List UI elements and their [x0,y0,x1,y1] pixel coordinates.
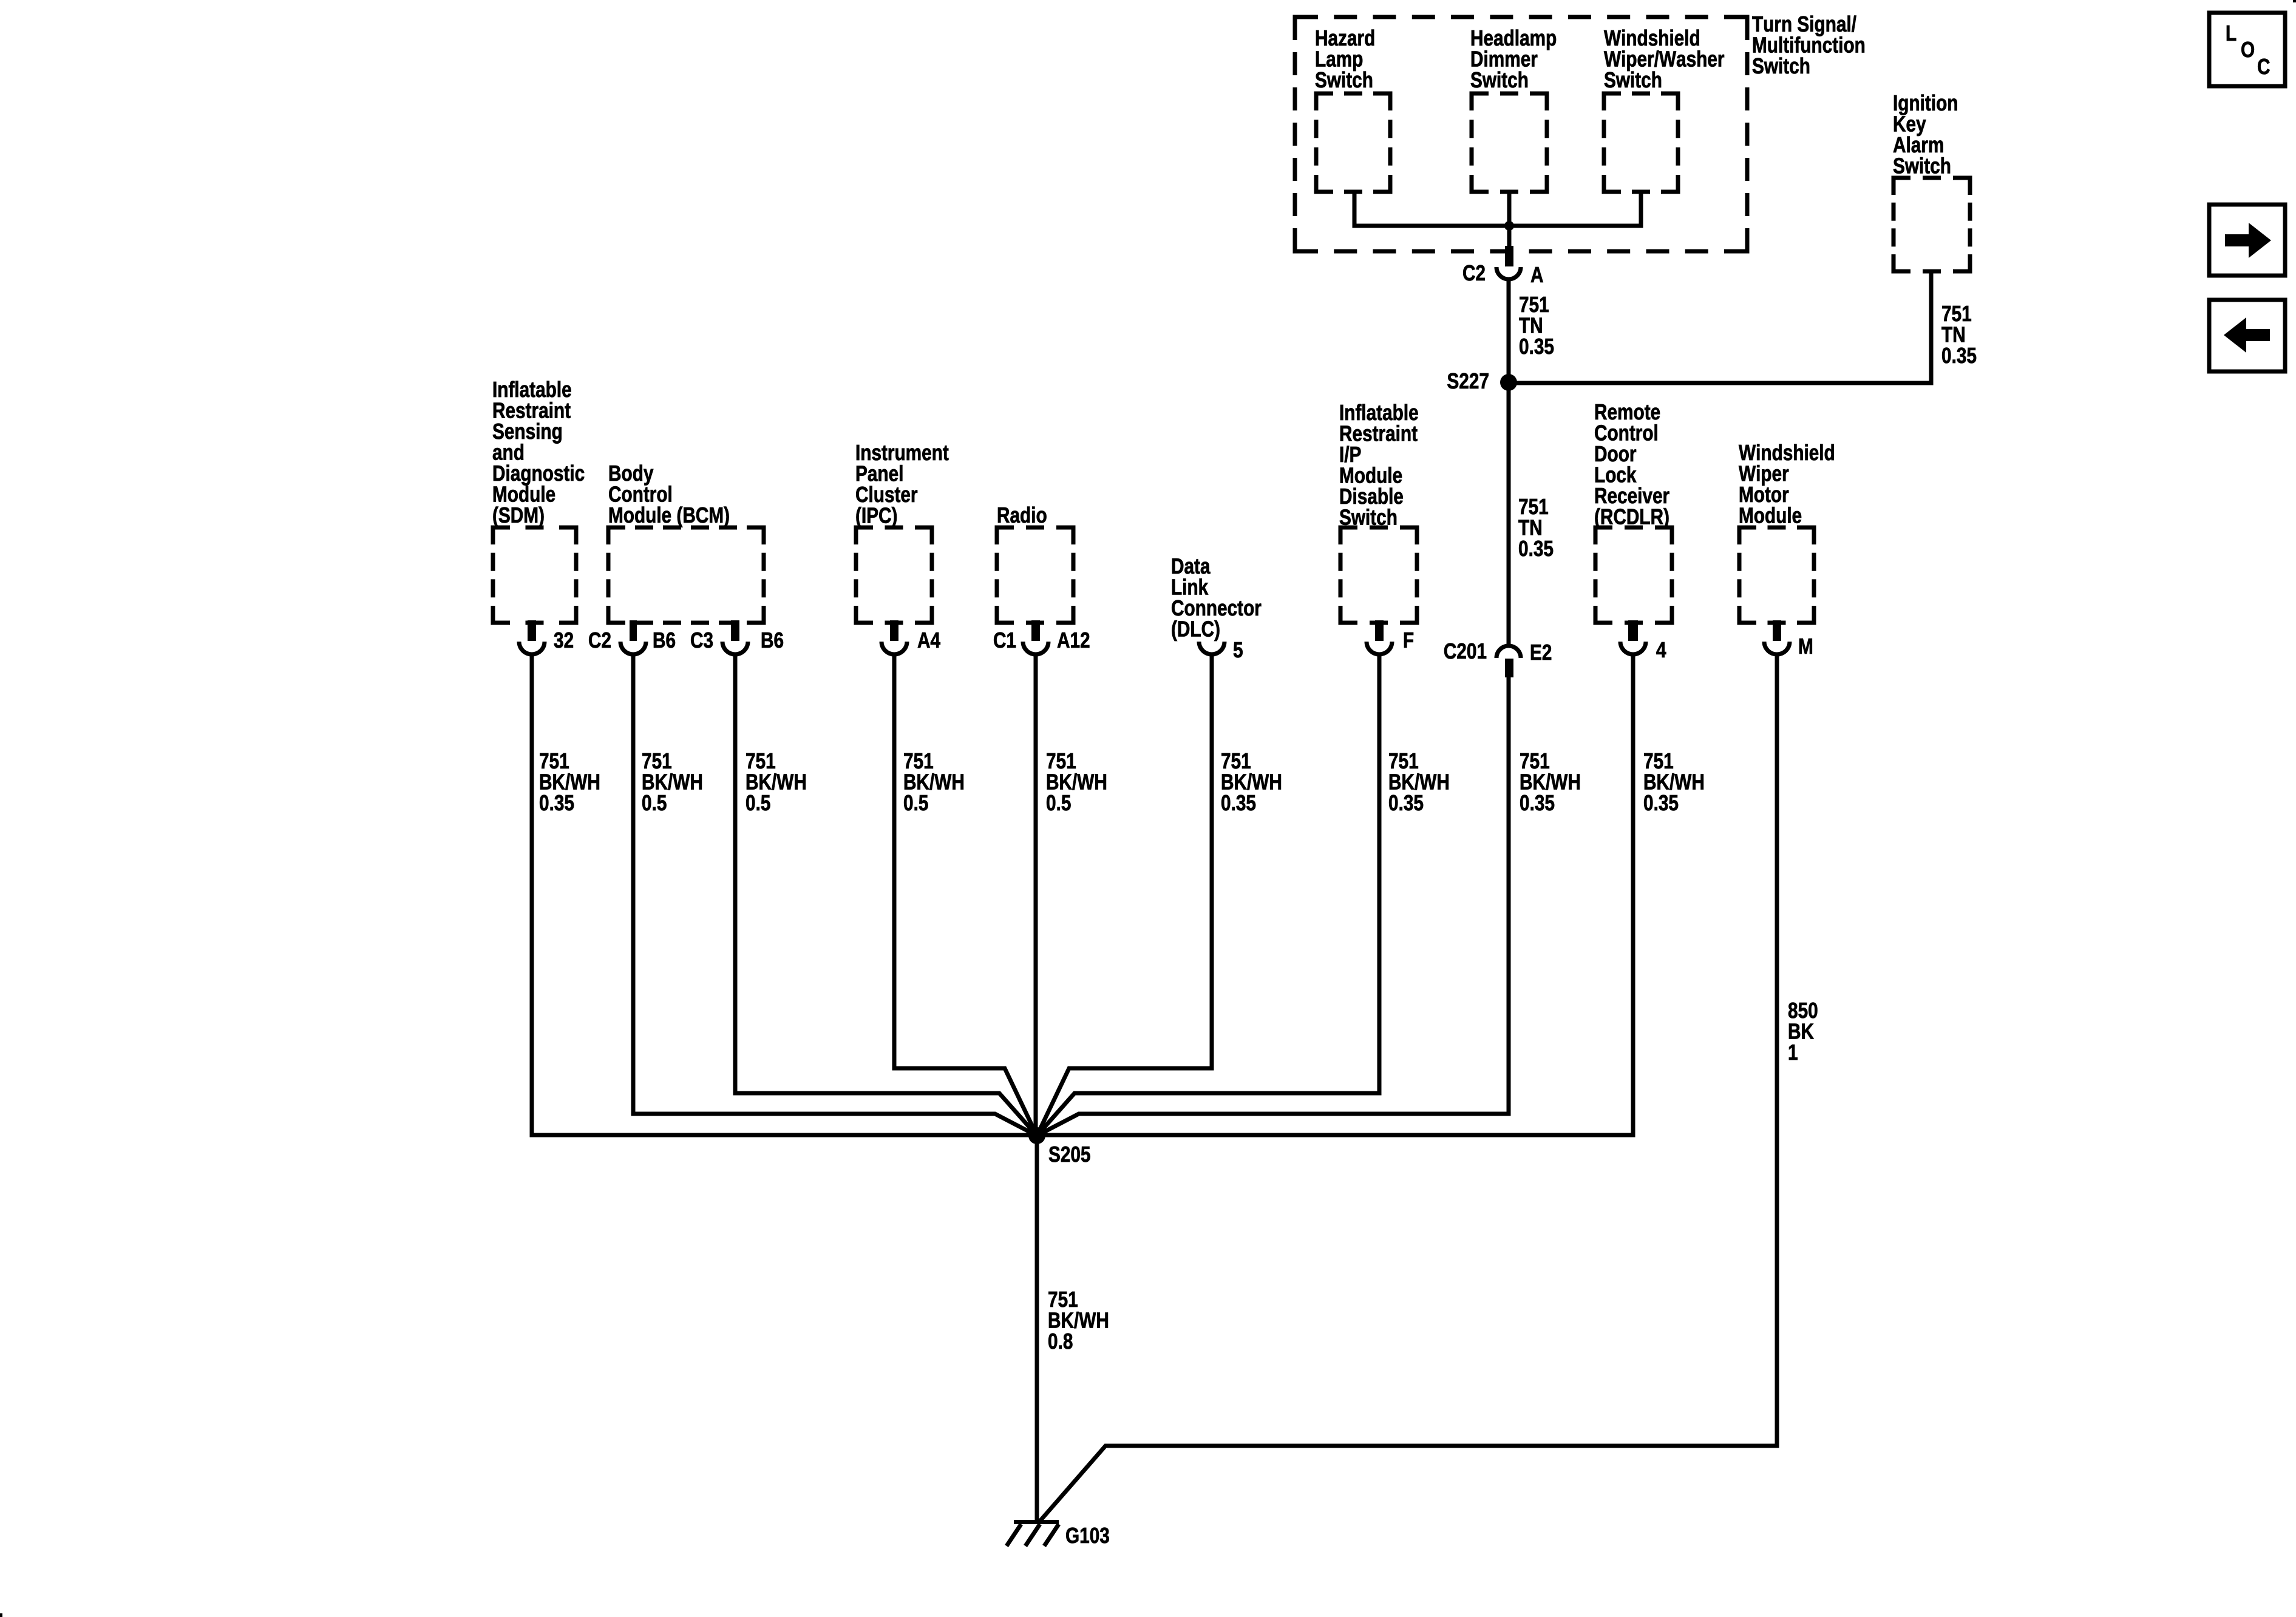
I/P disable pin bar [1375,620,1384,641]
C201 pin bar [1505,659,1513,677]
hazard lamp switch label [1316,30,1374,88]
wire label 751 BK/WH 0.35 (RCDLR) [1644,753,1703,810]
headlamp dimmer switch label [1471,30,1556,88]
wire headlamp switch down to connector C2 [1507,192,1512,251]
BCM connector cup C2/B6 [620,642,646,654]
Radio label [998,507,1047,523]
Radio box [997,527,1073,623]
wire label 850 BK 1 (wiper motor) [1788,1003,1817,1060]
wiper motor pin bar [1773,620,1781,641]
pin label A4 [918,632,940,648]
ignition key alarm switch box [1894,178,1970,271]
I/P disable connector cup [1367,642,1392,654]
wire label 751 TN 0.35 (left) [1519,297,1554,354]
pin label 5 [1234,642,1243,657]
wire I/P disable F to rail2 right [1037,656,1379,1136]
hazard lamp switch box [1316,93,1390,192]
IPC pin bar [890,620,898,641]
pin label A12 [1058,632,1090,648]
wire label 751 BK/WH 0.35 (E2) [1520,753,1580,810]
SDM label [493,381,584,527]
BCM connector cup C3/B6 [722,642,748,654]
RCDLR label [1595,404,1669,529]
SDM box [493,527,576,623]
pin label M [1799,639,1812,654]
wire ignition switch to S227 [1509,271,1931,383]
pin label C2 [589,632,611,648]
ground G103 symbol [1007,1520,1059,1546]
wire Radio through S205 to ground [1036,656,1037,1522]
windshield wiper/washer switch label [1604,30,1724,88]
right arrow box [2209,205,2285,276]
page corner mark bottom-left [0,1613,2,1617]
BCM label [609,465,729,527]
wire label 751 BK/WH 0.5 (IPC) [904,753,963,810]
wire RCDLR to bottom rail right [1037,656,1633,1135]
SDM pin bar [528,620,536,641]
wire wiper motor down and across to ground [1039,656,1777,1522]
DLC connector cup [1199,642,1224,654]
wire label 751 BK/WH 0.5 (BCM C2) [642,753,702,810]
BCM pin bar C3 [731,620,739,641]
label A [1531,267,1543,282]
RCDLR box [1595,527,1672,623]
wire label 751 BK/WH 0.35 (SDM) [540,753,599,810]
wire IPC to rail1 [894,656,1037,1136]
wire label 751 BK/WH 0.35 (I/P disable) [1389,753,1449,810]
label C201 [1444,643,1486,659]
wire E2 to rail3 right [1037,677,1509,1136]
DLC label [1172,558,1261,641]
left arrow box [2209,300,2285,371]
wire DLC to rail1 right [1037,656,1212,1136]
I/P module disable switch box [1340,527,1417,623]
pin label F [1404,632,1413,648]
junction dot on internal bus [1504,221,1514,231]
pin label 4 [1656,642,1666,657]
IPC connector cup [881,642,907,654]
wire windshield switch to internal bus [1509,192,1641,226]
SDM connector cup [519,642,545,654]
pin label B6 (first) [654,632,675,648]
wire label 751 BK/WH 0.5 (Radio) [1047,753,1106,810]
label S227 [1447,373,1488,389]
wire label 751 TN 0.35 (right) [1941,306,1976,363]
RCDLR connector cup [1620,642,1646,654]
label E2 [1531,645,1551,660]
wire label 751 BK/WH 0.5 (BCM C3) [746,753,806,810]
pin label 32 [554,632,573,648]
Radio connector cup C1/A12 [1023,642,1048,654]
pin label B6 (second) [762,632,783,648]
pin label C1 [994,632,1016,648]
wiper motor connector cup [1764,642,1790,654]
windshield wiper/washer switch box [1604,93,1678,192]
wire C2 to S227 [1507,280,1511,382]
wiper motor module box [1739,527,1814,623]
splice S205 [1028,1127,1045,1144]
BCM pin bar C2 [630,620,637,641]
label C2 [1463,265,1485,281]
connector C201 cap [1496,646,1521,658]
wire BCM C3 to rail2 [735,656,1037,1136]
wire SDM to S205 bottom rail [532,656,1037,1135]
label S205 [1049,1147,1090,1162]
wire label 751 BK/WH 0.35 (DLC) [1221,753,1281,810]
inflatable restraint I/P module disable switch label [1340,404,1418,525]
IPC box [856,527,932,623]
wire label 751 TN 0.35 (middle) [1518,499,1553,556]
headlamp dimmer switch box [1472,93,1547,192]
wire S227 down to C201 [1507,382,1511,645]
wire label 751 BK/WH 0.8 (ground wire) [1048,1292,1108,1349]
LOC reference box [2209,13,2285,86]
windshield wiper motor module label [1739,444,1834,523]
connector C2 cup [1496,267,1521,279]
connector C2 pin bar [1505,246,1513,266]
page corner mark [2293,0,2296,2]
wire BCM C2 to rail3 [633,656,1037,1136]
outer dashed box: Turn Signal/Multifunction Switch assembly [1295,17,1747,251]
Radio pin bar [1031,620,1040,641]
label G103 [1066,1528,1109,1544]
BCM box [608,527,764,623]
pin label C3 [691,632,713,648]
splice S227 [1500,374,1517,391]
IPC label [856,445,948,527]
RCDLR pin bar [1628,620,1638,641]
wire hazard switch to internal bus [1354,192,1509,226]
ignition key alarm switch label [1894,95,1957,174]
label Turn Signal/Multifunction Switch [1752,16,1864,74]
